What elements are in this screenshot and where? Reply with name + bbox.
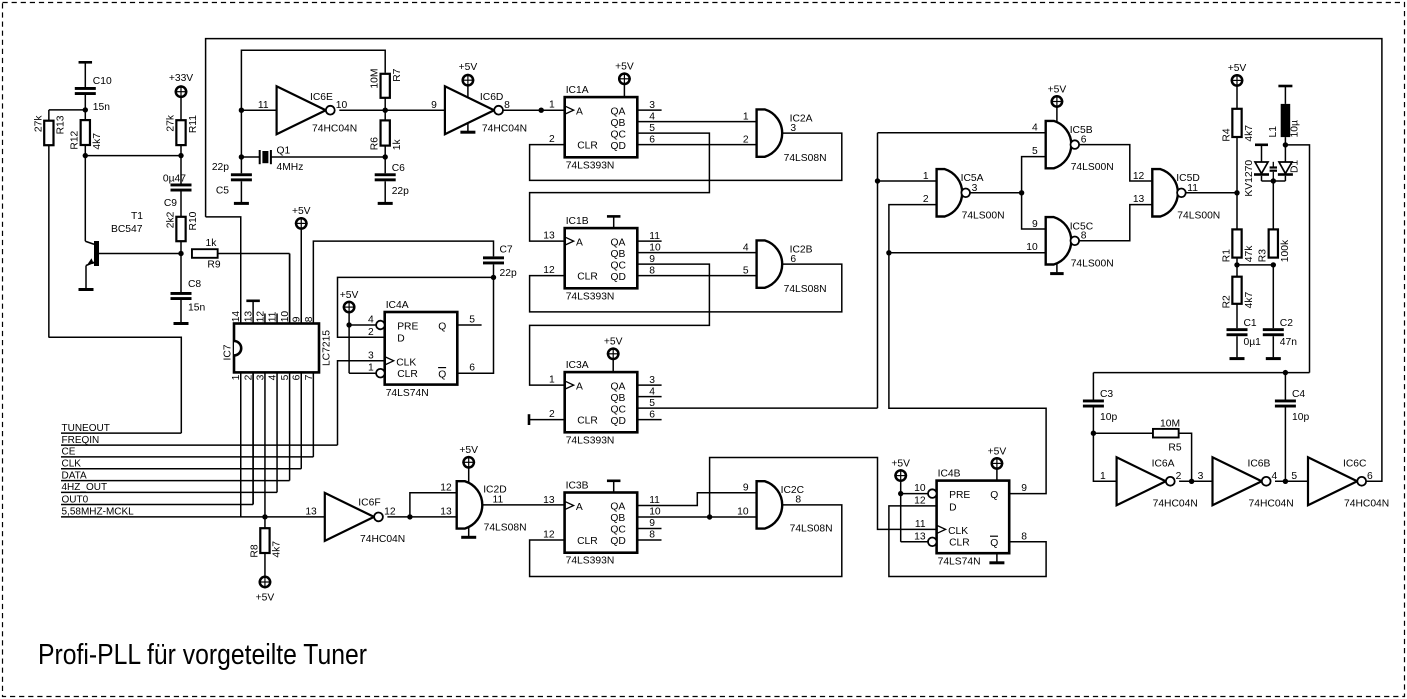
net label OUT0 xyxy=(61,494,253,505)
label IC2D pin 13 xyxy=(440,506,452,517)
label IC6A out 3 xyxy=(1198,471,1204,482)
svg-text:IC1B: IC1B xyxy=(566,216,589,227)
wire R6 to crystal node xyxy=(384,146,386,157)
ground C8 xyxy=(174,322,189,325)
resistor R9 xyxy=(192,238,221,271)
wire node to R5 xyxy=(1093,432,1153,434)
node C3/R5 junction xyxy=(1091,408,1096,436)
wire R5 to output node xyxy=(1179,433,1192,481)
power +5V IC7 pin 9 xyxy=(292,206,311,324)
ground IC4B xyxy=(989,553,1004,563)
svg-text:1: 1 xyxy=(923,171,929,182)
node R7/R6/output xyxy=(383,108,388,113)
svg-text:74LS393N: 74LS393N xyxy=(566,291,615,302)
wire IC6E input xyxy=(239,108,277,113)
svg-text:10M: 10M xyxy=(370,69,381,89)
wire IC7 pin 10 xyxy=(289,254,291,324)
label IC5C pin 8 xyxy=(1081,231,1087,242)
svg-text:74LS00N: 74LS00N xyxy=(1071,258,1114,269)
wire node to R1 xyxy=(1236,193,1238,230)
power +5V R4 xyxy=(1228,63,1247,109)
svg-text:9: 9 xyxy=(649,518,655,529)
varactor diode pair KV1270 D1 xyxy=(1244,145,1301,197)
wire IC6A output xyxy=(1179,479,1212,484)
counter IC3A 74LS393N xyxy=(549,337,655,447)
wire rail to IC5B input 4 xyxy=(878,132,1046,134)
svg-text:15n: 15n xyxy=(93,102,110,113)
wire R10 to base node xyxy=(180,241,182,253)
svg-text:9: 9 xyxy=(743,483,749,494)
label IC7 pin 9 xyxy=(292,316,303,322)
svg-text:3: 3 xyxy=(368,350,374,361)
svg-text:74LS393N: 74LS393N xyxy=(566,160,615,171)
capacitor C3 xyxy=(1083,373,1118,423)
svg-text:13: 13 xyxy=(305,506,317,517)
wire IC5C out to IC5D xyxy=(1079,205,1152,241)
svg-text:C9: C9 xyxy=(164,198,177,209)
label IC6B out 5 xyxy=(1291,471,1297,482)
wire IC3A QA stub xyxy=(637,384,661,386)
label IC7 pin 14 xyxy=(231,311,242,323)
svg-text:12: 12 xyxy=(543,265,555,276)
power +5V R8 xyxy=(256,553,275,604)
label IC7 pin 5 xyxy=(280,374,291,380)
label IC2C pin 10 xyxy=(737,506,749,517)
svg-text:2: 2 xyxy=(923,194,929,205)
svg-text:C5: C5 xyxy=(216,186,229,197)
svg-text:IC6C: IC6C xyxy=(1343,458,1367,469)
inverter IC6D 74HC04N xyxy=(445,86,527,134)
svg-text:DATA: DATA xyxy=(62,470,88,481)
ground T1 emitter xyxy=(79,288,94,291)
capacitor C9 xyxy=(163,156,192,209)
resistor R11 xyxy=(165,114,198,145)
label IC2B pin 5 xyxy=(743,265,749,276)
svg-text:CLK: CLK xyxy=(62,459,82,470)
svg-text:5: 5 xyxy=(1291,471,1297,482)
svg-text:CLK: CLK xyxy=(948,526,968,537)
svg-text:5: 5 xyxy=(469,315,475,326)
wire IC3B QA to IC2C xyxy=(637,493,756,506)
wire IC3A QD stub xyxy=(637,419,661,421)
svg-text:Q: Q xyxy=(438,370,446,381)
label IC6B pin 4 xyxy=(1272,471,1278,482)
svg-text:11: 11 xyxy=(258,100,269,111)
resistor R10 xyxy=(165,192,198,242)
svg-text:4MHz: 4MHz xyxy=(277,162,304,173)
svg-text:QA: QA xyxy=(611,237,626,248)
svg-text:74HC04N: 74HC04N xyxy=(360,534,405,545)
node IC4B PRE junction xyxy=(898,491,928,496)
wire R12 to node xyxy=(84,145,86,156)
inverter IC6E 74HC04N xyxy=(277,86,358,134)
label IC7 pin 10 xyxy=(280,311,291,323)
svg-text:D: D xyxy=(397,334,404,345)
label IC5A pin 1 xyxy=(923,171,929,182)
svg-text:6: 6 xyxy=(649,409,655,420)
svg-text:10M: 10M xyxy=(1160,419,1180,430)
svg-text:QB: QB xyxy=(611,118,626,129)
svg-text:+5V: +5V xyxy=(292,206,311,217)
wire IC7 pin8 to C7 xyxy=(313,241,493,323)
svg-text:22p: 22p xyxy=(500,268,517,279)
svg-text:R9: R9 xyxy=(207,260,220,271)
svg-text:1k: 1k xyxy=(392,138,403,150)
svg-text:9: 9 xyxy=(1021,483,1027,494)
svg-text:Profi-PLL für vorgeteilte Tune: Profi-PLL für vorgeteilte Tuner xyxy=(38,639,367,671)
resistor R4 xyxy=(1221,109,1254,142)
svg-text:QA: QA xyxy=(611,381,626,392)
svg-text:LC7215: LC7215 xyxy=(322,330,333,366)
svg-text:12: 12 xyxy=(1133,171,1145,182)
label IC7 pin 8 xyxy=(304,316,315,322)
label IC5B pin 4 xyxy=(1032,123,1038,134)
label IC7 pin 3 xyxy=(255,374,266,380)
label IC7 pin 12 xyxy=(255,311,266,323)
wire C3/C4 top row xyxy=(1093,370,1309,375)
svg-text:+5V: +5V xyxy=(1048,84,1067,95)
label IC5B pin 5 xyxy=(1032,146,1038,157)
label IC7 pin 13 xyxy=(244,311,255,323)
wire IC7 pin 1 to MCKL row xyxy=(240,372,242,517)
svg-text:5: 5 xyxy=(649,398,655,409)
stub IC7 pin 11 xyxy=(276,314,278,324)
label IC5C pin 9 xyxy=(1032,219,1038,230)
svg-text:2: 2 xyxy=(368,327,374,338)
wire IC5B out to IC5D xyxy=(1079,145,1152,181)
svg-text:BC547: BC547 xyxy=(111,224,143,235)
svg-text:D1: D1 xyxy=(1290,160,1301,173)
svg-text:CLK: CLK xyxy=(396,357,416,368)
svg-text:8: 8 xyxy=(649,265,655,276)
label IC6A pin 2 xyxy=(1176,471,1182,482)
svg-text:8: 8 xyxy=(304,316,315,322)
svg-text:27k: 27k xyxy=(33,115,44,132)
svg-text:10: 10 xyxy=(737,506,749,517)
transistor T1 BC547 xyxy=(85,156,181,288)
svg-text:QD: QD xyxy=(611,272,626,283)
wire R9 to IC7 pin 10 xyxy=(218,254,290,324)
wire IC7 pin to OUT0 xyxy=(252,372,254,504)
label IC5A pin 3 xyxy=(972,183,978,194)
svg-text:C8: C8 xyxy=(188,279,201,290)
svg-text:74LS08N: 74LS08N xyxy=(784,153,827,164)
label IC6C pin 6 xyxy=(1367,471,1373,482)
wire IC4B CLR tie xyxy=(901,494,928,542)
wire IC1B QC to IC3A clock xyxy=(530,264,710,385)
and-gate IC2C 74LS08N xyxy=(757,481,833,534)
wire IC7 pin to DATA xyxy=(289,372,291,480)
resistor R7 xyxy=(370,68,403,97)
svg-text:47k: 47k xyxy=(1244,245,1255,262)
ground C6 xyxy=(378,202,393,205)
and-gate IC2B 74LS08N xyxy=(757,240,827,295)
svg-text:10: 10 xyxy=(336,100,348,111)
svg-text:QC: QC xyxy=(611,260,627,271)
svg-text:R2: R2 xyxy=(1221,295,1232,308)
svg-text:Q1: Q1 xyxy=(277,146,291,157)
power +5V IC5B xyxy=(1048,84,1067,122)
label IC7 pin 2 xyxy=(244,374,255,380)
svg-text:10: 10 xyxy=(914,483,926,494)
label IC5B pin 6 xyxy=(1081,135,1087,146)
svg-text:A: A xyxy=(576,502,583,513)
svg-text:12: 12 xyxy=(543,530,555,541)
wire IC7 pin 2 to OUT0 row xyxy=(252,372,254,504)
inverter IC6F 74HC04N xyxy=(325,493,405,545)
wire osc feedback top xyxy=(241,50,385,110)
label IC2C pin 8 xyxy=(795,495,801,506)
svg-text:C7: C7 xyxy=(500,245,513,256)
svg-text:4k7: 4k7 xyxy=(92,133,103,150)
inverter IC6C 74HC04N xyxy=(1308,457,1389,509)
svg-text:R3: R3 xyxy=(1258,249,1269,262)
svg-text:6: 6 xyxy=(1367,471,1373,482)
resistor R3 xyxy=(1258,229,1291,262)
svg-text:27k: 27k xyxy=(165,114,176,131)
wire C3 to IC6A input xyxy=(1093,433,1116,481)
wire IC5A output xyxy=(970,190,1024,195)
svg-text:IC4B: IC4B xyxy=(938,468,961,479)
svg-text:10: 10 xyxy=(649,242,661,253)
svg-text:R6: R6 xyxy=(370,137,381,150)
label IC7 pin 11 xyxy=(268,311,279,322)
wire IC6E output row xyxy=(339,109,445,111)
svg-text:3: 3 xyxy=(1198,471,1204,482)
resistor R5 xyxy=(1153,419,1182,454)
inductor L1 xyxy=(1268,86,1301,145)
capacitor C10 xyxy=(75,76,112,113)
wire IC3A QC to IC5 rail xyxy=(637,407,877,409)
svg-text:1: 1 xyxy=(549,375,555,386)
svg-text:+5V: +5V xyxy=(256,593,275,604)
ic IC7 LC7215 xyxy=(223,324,333,373)
net label 5,58MHZ-MCKL xyxy=(61,507,325,518)
svg-text:A: A xyxy=(576,382,583,393)
capacitor C10 top stub xyxy=(79,62,93,87)
svg-text:CLR: CLR xyxy=(949,538,970,549)
wire TUNEOUT loop to R13 xyxy=(49,337,182,433)
wire FREQIN to IC4A CLK xyxy=(338,361,385,445)
svg-text:R7: R7 xyxy=(392,68,403,81)
wire IC2A output feedback to IC1A CLR xyxy=(530,133,842,180)
capacitor C8 xyxy=(171,254,206,314)
svg-text:CLR: CLR xyxy=(577,416,598,427)
nand-gate IC5D 74LS00N xyxy=(1152,169,1220,221)
node IC6E input rail xyxy=(239,110,244,160)
svg-text:10: 10 xyxy=(1026,242,1038,253)
label IC2D pin 12 xyxy=(440,483,452,494)
svg-text:QB: QB xyxy=(610,513,625,524)
wire IC2C output feedback to IC3B CLR xyxy=(530,505,842,577)
label IC6F pin 13 xyxy=(305,506,317,517)
ground IC2D xyxy=(461,527,476,537)
crystal Q1 4MHz xyxy=(241,146,388,174)
svg-text:R5: R5 xyxy=(1168,443,1181,454)
label IC2B pin 4 xyxy=(743,242,749,253)
svg-text:74HC04N: 74HC04N xyxy=(1344,498,1389,509)
wire IC6C output top loop xyxy=(206,39,1382,482)
svg-text:L1: L1 xyxy=(1268,126,1279,138)
node IC5A input 1 xyxy=(875,178,937,183)
net label FREQIN xyxy=(61,435,338,446)
net label CLK xyxy=(61,459,301,470)
svg-text:100k: 100k xyxy=(1280,239,1291,262)
power +5V IC4B left xyxy=(891,459,910,494)
svg-text:4: 4 xyxy=(1272,471,1278,482)
svg-text:0µ1: 0µ1 xyxy=(1244,337,1262,348)
capacitor C4 xyxy=(1275,373,1310,482)
wire IC3B QC stub xyxy=(637,528,661,530)
wire IC3B QB to IC4B clock xyxy=(710,458,937,530)
svg-text:22p: 22p xyxy=(212,162,229,173)
svg-text:4: 4 xyxy=(649,111,655,122)
svg-text:QB: QB xyxy=(611,249,626,260)
net label CE xyxy=(61,447,313,458)
svg-text:8: 8 xyxy=(795,495,801,506)
wire IC5A out to IC5B in5 xyxy=(1022,157,1046,193)
wire C10 to node xyxy=(84,95,86,110)
capacitor C6 xyxy=(375,157,409,202)
and-gate IC2A 74LS08N xyxy=(757,109,827,164)
label IC2D pin 11 xyxy=(493,495,504,506)
svg-text:74LS74N: 74LS74N xyxy=(938,557,981,568)
counter IC3B 74LS393N xyxy=(543,480,661,566)
resistor R8 xyxy=(249,517,282,558)
node R1/R2/R3 row xyxy=(1234,258,1276,268)
svg-text:2: 2 xyxy=(743,134,749,145)
wire IC4A CLR tie xyxy=(349,325,376,373)
resistor R2 xyxy=(1221,265,1254,309)
svg-text:13: 13 xyxy=(1133,194,1145,205)
svg-text:12: 12 xyxy=(914,495,926,506)
label IC5D pin 12 xyxy=(1133,171,1145,182)
label IC5D pin 11 xyxy=(1187,183,1198,194)
svg-text:5: 5 xyxy=(649,123,655,134)
capacitor C2 xyxy=(1263,265,1297,348)
svg-text:QD: QD xyxy=(611,141,626,152)
svg-text:R11: R11 xyxy=(188,115,199,133)
power +33V xyxy=(169,73,193,120)
power +5V IC4A xyxy=(340,290,359,325)
nand-gate IC5B 74LS00N xyxy=(1046,121,1114,173)
svg-text:11: 11 xyxy=(493,495,504,506)
capacitor C7 xyxy=(483,245,517,280)
svg-text:1: 1 xyxy=(549,100,555,111)
label IC6E pin 10 xyxy=(336,100,348,111)
svg-text:C2: C2 xyxy=(1280,318,1293,329)
svg-text:4k7: 4k7 xyxy=(272,541,283,558)
svg-text:Q: Q xyxy=(438,322,446,333)
svg-text:3: 3 xyxy=(649,375,655,386)
flipflop IC4A 74LS74N xyxy=(368,300,475,399)
svg-text:4: 4 xyxy=(1032,123,1038,134)
power +5V IC4B top xyxy=(988,446,1007,480)
svg-text:9: 9 xyxy=(1032,219,1038,230)
svg-text:IC3B: IC3B xyxy=(566,480,589,491)
svg-text:QC: QC xyxy=(611,404,627,415)
svg-text:IC6D: IC6D xyxy=(480,92,503,103)
svg-text:+5V: +5V xyxy=(604,337,623,348)
wire IC1A QA stub xyxy=(637,109,661,111)
wire IC2B output feedback to IC1B CLR xyxy=(530,264,842,312)
node R8 junction xyxy=(262,514,267,519)
wire IC4A Q stub xyxy=(457,324,481,326)
svg-text:5,58MHZ-MCKL: 5,58MHZ-MCKL xyxy=(62,507,135,518)
svg-text:74LS74N: 74LS74N xyxy=(386,388,429,399)
wire IC6D output xyxy=(503,108,564,113)
svg-text:IC4A: IC4A xyxy=(386,300,409,311)
svg-text:13: 13 xyxy=(543,231,555,242)
resistor R12 xyxy=(70,110,103,150)
ground C1 xyxy=(1230,336,1245,358)
node C10/R13/R12 junction xyxy=(83,107,88,112)
wire IC7 pin to CLK xyxy=(300,372,302,468)
svg-text:1: 1 xyxy=(743,111,749,122)
svg-text:FREQIN: FREQIN xyxy=(62,435,100,446)
svg-text:13: 13 xyxy=(440,506,452,517)
svg-text:+5V: +5V xyxy=(615,62,634,73)
power +5V IC6D xyxy=(459,62,478,98)
svg-text:74LS393N: 74LS393N xyxy=(566,556,615,567)
svg-text:12: 12 xyxy=(384,506,396,517)
wire R4 to node xyxy=(1234,137,1239,196)
nand-gate IC5C 74LS00N xyxy=(1046,217,1114,269)
resistor R1 xyxy=(1221,229,1254,262)
svg-text:Q: Q xyxy=(990,490,998,501)
svg-text:12: 12 xyxy=(440,483,452,494)
svg-text:QD: QD xyxy=(611,416,626,427)
svg-text:A: A xyxy=(576,238,583,249)
svg-text:13: 13 xyxy=(914,531,926,542)
svg-text:10p: 10p xyxy=(1292,412,1309,423)
svg-text:8: 8 xyxy=(649,530,655,541)
title text xyxy=(38,639,367,671)
svg-text:4k7: 4k7 xyxy=(1244,292,1255,309)
svg-text:QA: QA xyxy=(610,502,625,513)
svg-text:QC: QC xyxy=(611,129,627,140)
svg-text:C6: C6 xyxy=(392,163,405,174)
svg-text:+33V: +33V xyxy=(169,73,193,84)
svg-text:2: 2 xyxy=(549,134,555,145)
svg-text:9: 9 xyxy=(649,254,655,265)
svg-text:IC7: IC7 xyxy=(223,344,234,360)
svg-text:R4: R4 xyxy=(1221,128,1232,141)
svg-text:CLR: CLR xyxy=(397,369,418,380)
label IC5A pin 2 xyxy=(923,194,929,205)
svg-text:5: 5 xyxy=(1032,146,1038,157)
label IC2A pin 1 xyxy=(743,111,749,122)
label IC2B pin 6 xyxy=(790,254,796,265)
net label TUNEOUT xyxy=(61,423,181,434)
svg-text:74HC04N: 74HC04N xyxy=(312,123,357,134)
power +5V IC2D xyxy=(459,445,478,483)
svg-text:IC6E: IC6E xyxy=(310,92,333,103)
svg-text:+5V: +5V xyxy=(1228,63,1247,74)
wire IC3B QD stub xyxy=(637,539,661,541)
svg-text:47n: 47n xyxy=(1280,337,1297,348)
svg-text:D: D xyxy=(949,502,956,513)
svg-text:KV1270: KV1270 xyxy=(1244,160,1255,197)
svg-text:2k2: 2k2 xyxy=(165,211,176,228)
svg-text:CLR: CLR xyxy=(577,536,598,547)
label IC5D pin 13 xyxy=(1133,194,1145,205)
svg-text:4HZ_OUT: 4HZ_OUT xyxy=(62,482,108,493)
svg-text:4: 4 xyxy=(368,315,374,326)
svg-text:C3: C3 xyxy=(1100,389,1113,400)
svg-text:74LS08N: 74LS08N xyxy=(484,523,527,534)
wire IC1A QC to IC1B clock xyxy=(530,133,710,241)
